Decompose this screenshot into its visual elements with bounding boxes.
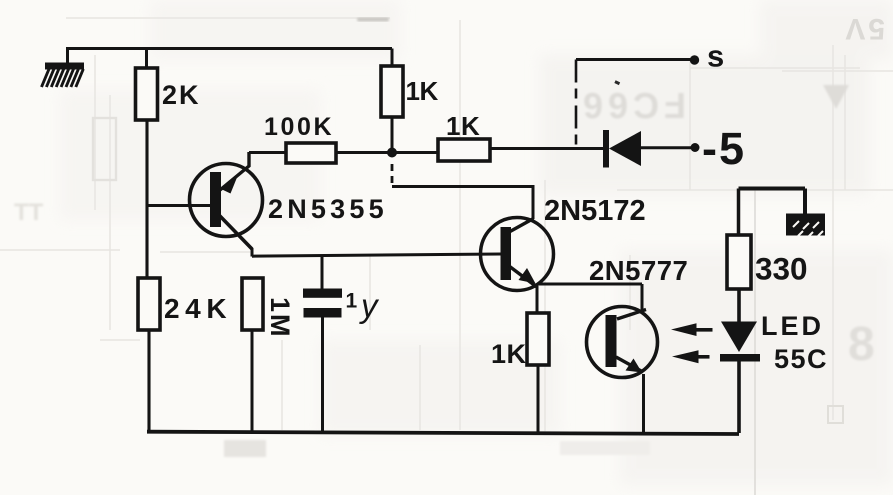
transistor Q2 2N5172 [481, 218, 554, 291]
wire 1K to diode [490, 147, 604, 150]
wire below 24K [147, 330, 150, 433]
resistor R4 1K [381, 66, 403, 117]
svg-text:TT: TT [14, 199, 44, 226]
node s terminal [690, 55, 699, 64]
wire left column [145, 120, 148, 278]
wire 1K top stub [391, 49, 394, 67]
wire Q3 emitter to bottom [642, 374, 645, 433]
svg-text:5V: 5V [842, 12, 885, 45]
svg-text:330: 330 [755, 251, 808, 287]
resistor R7 1K [527, 313, 549, 365]
capacitor C1 1u [303, 256, 342, 434]
ghost resistor outline left [93, 118, 116, 180]
resistor R2 24K [138, 278, 160, 330]
resistor R3 100K [286, 143, 336, 163]
wire Q1 collector to 100K [249, 151, 286, 154]
wire 2K top stub [145, 49, 148, 69]
wire ground stub [66, 49, 69, 64]
wire LED to bottom [737, 361, 741, 434]
ghost smudge bottom [224, 440, 266, 457]
diode D1 [603, 130, 641, 168]
wire 1K to junction [391, 117, 394, 152]
wire Q2 emitter junction [537, 284, 642, 313]
wire junction to Q2 collector [392, 185, 533, 219]
svg-text:1K: 1K [491, 339, 527, 369]
svg-text:1: 1 [346, 290, 358, 313]
wire top rail [66, 47, 392, 50]
wire s dash-dot down [575, 60, 578, 150]
svg-text:-5: -5 [702, 123, 746, 174]
svg-text:100K: 100K [264, 113, 334, 141]
LED D2 [720, 322, 760, 362]
wire diode to -5 [641, 146, 694, 149]
node junction dot [387, 148, 397, 158]
ghost smear top [357, 18, 389, 22]
wire 330 stub [737, 189, 741, 236]
svg-text:1K: 1K [446, 111, 480, 141]
svg-text:55C: 55C [774, 344, 828, 374]
wire 330 to LED [737, 289, 741, 322]
svg-text:2K: 2K [162, 80, 201, 110]
wire dash from junction down [391, 164, 394, 186]
svg-text:8: 8 [848, 318, 875, 371]
svg-text:1M: 1M [265, 297, 295, 339]
light arrow 1 [671, 323, 713, 336]
light arrow 2 [672, 350, 710, 363]
resistor R6 1M [242, 278, 263, 330]
speck [614, 80, 620, 85]
ground G2 [786, 214, 825, 238]
resistor R5 1K horizontal [438, 139, 490, 161]
wire 1K to bottom [537, 365, 540, 433]
svg-text:y: y [359, 287, 380, 324]
transistor Q1 2N5355 [190, 152, 263, 249]
wire Q1 emitter rail to Q2 base [252, 248, 501, 257]
svg-text:LED: LED [761, 311, 824, 341]
wire 1M to bottom [251, 330, 254, 433]
svg-text:2N5777: 2N5777 [589, 255, 688, 286]
wire s line [576, 58, 694, 61]
wire bottom rail [147, 432, 739, 434]
svg-text:1K: 1K [406, 76, 439, 106]
svg-text:2N5355: 2N5355 [268, 194, 388, 224]
svg-text:s: s [707, 39, 724, 74]
node -5 terminal [691, 143, 700, 152]
svg-text:24K: 24K [164, 293, 232, 324]
ghost bleed text 5V top right [842, 12, 885, 45]
transistor Q3 2N5777 [587, 307, 658, 378]
wire 100K to junction [336, 151, 438, 154]
ghost bleed text FCC6 [578, 85, 686, 126]
ground G1 [42, 63, 85, 88]
ghost triangle [823, 85, 849, 109]
resistor R8 330 [727, 235, 751, 289]
wire right top [739, 189, 806, 217]
wire Q1 base [147, 204, 212, 207]
resistor R1 2K [136, 68, 158, 120]
svg-text:2N5172: 2N5172 [544, 195, 646, 227]
svg-text:FC66: FC66 [578, 85, 686, 126]
